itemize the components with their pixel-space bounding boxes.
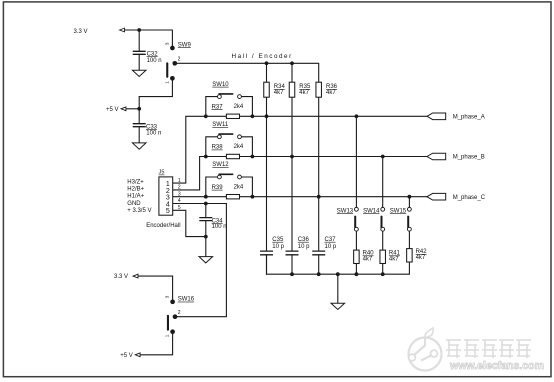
svg-text:2: 2 [178,57,181,63]
svg-text:J5: J5 [159,170,165,176]
svg-text:SW11: SW11 [212,122,229,128]
svg-text:100 n: 100 n [146,131,161,137]
svg-text:C35: C35 [272,237,284,243]
svg-text:H1/A+: H1/A+ [127,194,144,200]
svg-text:SW14: SW14 [363,208,380,214]
svg-text:100 n: 100 n [212,224,227,230]
svg-text:1: 1 [165,81,170,84]
svg-text:4k7: 4k7 [274,90,284,96]
svg-text:Encoder/Hall: Encoder/Hall [146,223,180,229]
svg-text:GND: GND [127,201,141,207]
svg-text:www.elecfans.com: www.elecfans.com [449,360,544,372]
svg-text:C36: C36 [298,237,310,243]
svg-text:4k7: 4k7 [299,90,309,96]
svg-text:SW12: SW12 [212,162,229,168]
svg-text:4k7: 4k7 [363,257,373,263]
svg-text:R37: R37 [212,104,224,110]
svg-text:10 p: 10 p [272,244,284,250]
svg-text:2k4: 2k4 [234,144,244,150]
svg-text:100 n: 100 n [147,58,162,64]
svg-text:+5 V: +5 V [106,107,119,113]
svg-text:3: 3 [164,295,169,298]
svg-text:SW10: SW10 [212,82,229,88]
svg-text:Hall / Encoder: Hall / Encoder [232,53,293,60]
svg-text:2k4: 2k4 [234,184,244,190]
svg-text:SW9: SW9 [178,42,192,48]
svg-text:3.3 V: 3.3 V [114,274,128,280]
svg-text:2: 2 [178,310,181,316]
svg-text:4k7: 4k7 [389,257,399,263]
svg-text:+ 3.3/5 V: + 3.3/5 V [127,208,151,214]
svg-text:4k7: 4k7 [326,90,336,96]
svg-text:5: 5 [166,208,170,215]
svg-text:C32: C32 [147,51,159,57]
svg-text:2: 2 [178,185,181,191]
svg-text:M_phase_B: M_phase_B [453,155,485,161]
svg-text:M_phase_C: M_phase_C [453,195,486,201]
svg-text:+5 V: +5 V [120,353,133,359]
svg-text:C37: C37 [325,237,337,243]
svg-text:SW13: SW13 [337,208,354,214]
svg-text:R38: R38 [212,145,224,151]
svg-text:SW15: SW15 [390,208,407,214]
svg-text:10 p: 10 p [325,244,337,250]
svg-text:3.3 V: 3.3 V [74,29,88,35]
svg-text:4: 4 [178,198,181,204]
svg-text:M_phase_A: M_phase_A [453,115,485,121]
svg-text:SW16: SW16 [178,297,195,303]
svg-text:1: 1 [178,178,181,184]
svg-text:H3/Z+: H3/Z+ [127,179,144,185]
svg-text:5: 5 [178,205,181,211]
svg-text:4k7: 4k7 [416,255,426,261]
svg-text:3: 3 [165,42,170,45]
svg-text:R39: R39 [212,185,224,191]
svg-text:3: 3 [178,191,181,197]
svg-text:1: 1 [164,334,169,337]
svg-text:H2/B+: H2/B+ [127,187,144,193]
svg-text:10 p: 10 p [298,244,310,250]
svg-text:C33: C33 [146,124,158,130]
svg-text:2k4: 2k4 [234,104,244,110]
